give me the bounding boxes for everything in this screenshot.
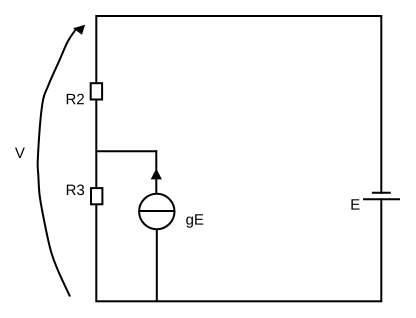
wire branch horizontal [96,150,156,152]
current source U1 circle [139,194,174,229]
label R3 [67,185,84,196]
label gE [186,214,203,227]
current source chord [139,210,174,212]
battery E gap [377,194,385,198]
label R2 [67,94,84,104]
resistor R2 [91,83,102,99]
battery E long plate [363,198,400,200]
arrow on branch [151,169,162,180]
resistor R3 [91,188,102,204]
voltage arrowhead [73,25,85,35]
label V [15,148,25,158]
wire branch vertical lower [156,229,158,301]
voltage arc V [38,29,76,297]
wire main loop [96,16,381,301]
battery E short plate [372,192,391,194]
label E [351,199,359,209]
wire branch vertical upper [155,150,157,194]
